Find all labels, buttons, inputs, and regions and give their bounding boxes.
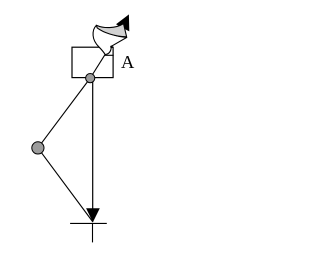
ribbon tail loop (white) (93, 26, 127, 55)
junction blob where tail meets block corner (110, 46, 113, 49)
ground tick below (92, 223, 94, 242)
lower pivot (gray) (32, 142, 44, 154)
link upper pivot to lower pivot (38, 78, 90, 148)
svg-text:A: A (121, 52, 134, 72)
ribbon tail cut line (105, 54, 114, 56)
arrowhead of curved arrow (black) (116, 14, 129, 31)
upper pivot (gray) (86, 74, 95, 83)
link lower pivot to ground point (38, 148, 93, 222)
block (rectangle body) (72, 47, 113, 77)
rod from pivot to crank (90, 54, 105, 78)
downward arrowhead (86, 208, 100, 222)
ribbon band (gray top) (96, 24, 126, 37)
vertical line (plumb) (92, 79, 94, 209)
ground horizontal line (70, 222, 107, 224)
